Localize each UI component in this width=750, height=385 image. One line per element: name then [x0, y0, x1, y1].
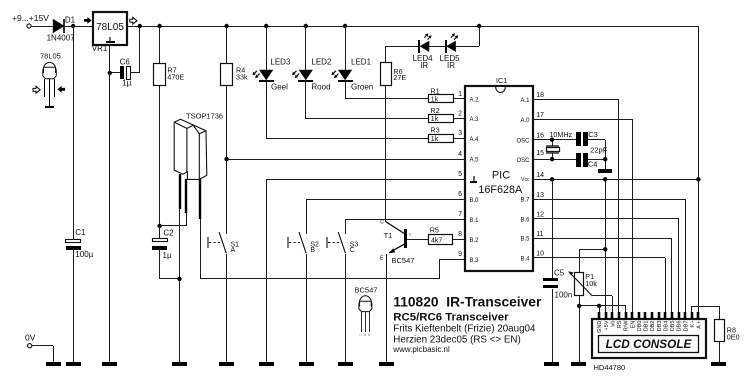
- svg-text:1k: 1k: [431, 136, 439, 143]
- LCD pin K -: [691, 312, 694, 319]
- svg-text:IR: IR: [447, 61, 455, 70]
- wire ground line to LCD GND pin: [599, 306, 601, 312]
- svg-text:C1: C1: [75, 228, 86, 237]
- ground T1: [379, 362, 394, 366]
- TSOP leg 1 (GND): [179, 174, 181, 209]
- wire R8 to ground: [719, 342, 721, 362]
- potentiometer P1 10k: [579, 249, 581, 273]
- svg-text:10MHz: 10MHz: [549, 130, 572, 139]
- wire TSOP OUT leg down: [200, 219, 202, 279]
- svg-text:IC1: IC1: [496, 76, 507, 85]
- resistor R5 4k7: [407, 239, 429, 241]
- LCD pin DB6: [678, 312, 681, 319]
- svg-text:PIC: PIC: [492, 170, 510, 182]
- ground S3: [338, 362, 353, 366]
- wire pin 13 to LCD DB7: [532, 199, 685, 201]
- switch S1 (A): [226, 159, 228, 234]
- svg-text:14: 14: [536, 172, 544, 179]
- svg-text:16: 16: [536, 133, 544, 140]
- svg-text:A.2: A.2: [470, 98, 480, 104]
- svg-text:www.picbasic.nl: www.picbasic.nl: [392, 345, 450, 354]
- svg-text:C2: C2: [163, 229, 174, 238]
- capacitor C2 1u: [159, 226, 161, 239]
- wire pin 7 to S3: [346, 219, 465, 221]
- wire pin 11 to LCD DB5: [532, 238, 672, 240]
- svg-text:1N4007: 1N4007: [47, 34, 76, 43]
- svg-text:110820 IR-Transceiver: 110820 IR-Transceiver: [393, 295, 542, 310]
- LCD pin Vo: [611, 312, 614, 319]
- svg-text:DB0: DB0: [637, 321, 643, 332]
- svg-text:TSOP1736: TSOP1736: [186, 112, 223, 121]
- svg-text:100µ: 100µ: [75, 250, 93, 259]
- wire pin 9 to TSOP OUT: [439, 259, 465, 261]
- svg-text:6: 6: [458, 191, 462, 198]
- wire pin 12 to LCD DB6: [532, 218, 679, 220]
- junction LED2 top: [304, 24, 308, 28]
- svg-text:Groen: Groen: [351, 82, 373, 91]
- wire pin 5 Vss to ground: [267, 179, 465, 181]
- junction R4 / S1 / pin A.5: [224, 157, 228, 161]
- resistor R4 33k: [226, 26, 228, 64]
- svg-text:1: 1: [458, 91, 462, 98]
- ground R8: [711, 362, 726, 366]
- capacitor C1 100u: [66, 240, 81, 243]
- capacitor C3 22pF: [576, 132, 581, 146]
- svg-text:15: 15: [536, 150, 544, 157]
- svg-text:5: 5: [458, 171, 462, 178]
- wire R1 to PIC: [454, 98, 465, 100]
- wire LED4 to LED5: [429, 46, 445, 48]
- wire +5V down to LCD A+: [698, 179, 700, 312]
- svg-text:9: 9: [458, 251, 462, 258]
- wire LED2 to R2: [305, 82, 307, 119]
- svg-text:LED1: LED1: [351, 58, 372, 67]
- svg-text:DB2: DB2: [650, 321, 656, 332]
- svg-text:C5: C5: [554, 268, 565, 277]
- ground Vss: [259, 362, 274, 366]
- svg-text:10: 10: [536, 251, 544, 258]
- wire D1 junction down to C1: [73, 26, 75, 239]
- wire 0V to ground: [32, 345, 53, 347]
- junction R7 / C2 / TSOP-Vs: [157, 224, 161, 228]
- LCD pin DB2: [651, 312, 654, 319]
- resistor R7 470E: [159, 26, 161, 64]
- svg-text:78L05: 78L05: [40, 52, 61, 61]
- ground C5: [544, 362, 559, 366]
- wire junction to TSOP middle leg: [160, 225, 186, 227]
- svg-text:C3: C3: [588, 130, 598, 139]
- svg-text:100n: 100n: [555, 291, 573, 300]
- svg-text:12: 12: [536, 212, 544, 219]
- junction C6 to VR1 ground line: [108, 71, 112, 75]
- wire LED5 to +5V rail: [455, 46, 479, 48]
- svg-text:7: 7: [458, 211, 462, 218]
- wire TSOP Vs leg to R7/C2 junction: [186, 213, 188, 226]
- wire R3 to PIC: [454, 138, 465, 140]
- svg-text:27E: 27E: [393, 73, 406, 82]
- wire pin 14 Vcc to +5V: [532, 179, 698, 181]
- svg-text:1k: 1k: [431, 97, 439, 104]
- svg-text:B.2: B.2: [470, 238, 480, 244]
- svg-text:1k: 1k: [431, 116, 439, 123]
- svg-text:Vcc: Vcc: [521, 177, 530, 183]
- svg-text:RC5/RC6 Transceiver: RC5/RC6 Transceiver: [393, 311, 509, 323]
- svg-text:LED3: LED3: [270, 58, 291, 67]
- wire TSOP GND leg to ground: [179, 209, 181, 362]
- svg-text:C: C: [350, 247, 355, 254]
- svg-text:33k: 33k: [236, 72, 248, 81]
- svg-text:DB3: DB3: [657, 321, 663, 332]
- LED LED1 (Groen): [345, 26, 347, 70]
- wire pin 10 to LCD DB4: [532, 257, 665, 259]
- svg-text:C4: C4: [588, 159, 598, 168]
- svg-text:C: C: [380, 220, 384, 226]
- svg-text:K -: K -: [690, 320, 696, 327]
- resistor R8 0E0: [715, 320, 725, 342]
- ground S2: [299, 362, 314, 366]
- wire T1 emitter to ground: [386, 254, 388, 362]
- wire R6 top to LED4: [385, 46, 387, 63]
- svg-text:B.3: B.3: [470, 258, 480, 264]
- svg-text:R1: R1: [430, 86, 439, 95]
- switch S3 (C): [345, 219, 347, 234]
- svg-text:R3: R3: [430, 126, 439, 135]
- svg-text:BC547: BC547: [392, 256, 415, 265]
- svg-text:B.5: B.5: [520, 237, 530, 243]
- svg-text:B.4: B.4: [520, 257, 530, 263]
- svg-text:BC547: BC547: [355, 286, 378, 295]
- resistor R1 1k: [429, 95, 454, 103]
- svg-text:17: 17: [536, 112, 544, 119]
- svg-text:D1: D1: [65, 16, 76, 25]
- svg-text:B.7: B.7: [520, 198, 530, 204]
- ground S1: [219, 362, 234, 366]
- wire ground line to LCD R/W pin: [625, 306, 627, 312]
- svg-text:13: 13: [536, 192, 544, 199]
- svg-text:R5: R5: [430, 226, 439, 235]
- svg-text:IR: IR: [420, 61, 428, 70]
- svg-text:3: 3: [458, 130, 462, 137]
- regulator VR1 78L05 box: [93, 12, 127, 45]
- svg-text:Rood: Rood: [311, 82, 330, 91]
- svg-text:R2: R2: [430, 106, 439, 115]
- svg-text:OSC: OSC: [516, 138, 530, 144]
- resistor R2 1k: [429, 115, 454, 123]
- LCD pin A +: [697, 312, 700, 319]
- svg-text:GND: GND: [597, 321, 603, 333]
- svg-text:R/W: R/W: [624, 320, 630, 332]
- svg-text:B.6: B.6: [520, 217, 530, 223]
- wire +5V rail down right side: [698, 26, 700, 179]
- wire pin 4 to R4/S1 junction: [227, 159, 465, 161]
- LCD pin R/W: [625, 312, 628, 319]
- svg-text:4: 4: [458, 151, 462, 158]
- svg-text:A.3: A.3: [470, 117, 480, 123]
- svg-text:C6: C6: [120, 57, 131, 66]
- wire LED3 to R3: [266, 82, 268, 138]
- svg-text:Frits Kieftenbelt (Frizie) 20a: Frits Kieftenbelt (Frizie) 20aug04: [393, 324, 536, 335]
- svg-text:LCD CONSOLE: LCD CONSOLE: [606, 337, 693, 351]
- LCD pin +5V: [605, 312, 608, 319]
- crystal X1 10MHz: [550, 138, 554, 142]
- LCD pin DB7: [684, 312, 687, 319]
- ground 0V: [46, 362, 61, 366]
- svg-text:B: B: [310, 247, 315, 254]
- wire R2 to PIC: [454, 118, 465, 120]
- LCD CONSOLE module HD44780: [592, 319, 706, 358]
- wire P1 bottom to ground: [579, 296, 581, 306]
- wire pin 6 to S2: [306, 199, 465, 201]
- svg-text:A: A: [231, 247, 236, 254]
- resistor R3 1k: [429, 135, 454, 143]
- svg-text:0V: 0V: [25, 332, 36, 342]
- wire D1 to VR1: [64, 26, 93, 28]
- svg-text:A.4: A.4: [470, 137, 480, 143]
- svg-text:16F628A: 16F628A: [478, 184, 523, 196]
- wire Vcc branch down to LCD +5V: [605, 179, 607, 312]
- ground C1: [66, 362, 81, 366]
- svg-text:11: 11: [536, 231, 543, 238]
- capacitor C4 22pF: [576, 153, 581, 167]
- wire pin 17 to LCD EN: [532, 119, 632, 121]
- LCD pin GND: [598, 312, 601, 319]
- wire VR1 output rail: [127, 26, 698, 28]
- junction R7 top: [157, 24, 161, 28]
- 78L05 TO-92 package drawing: [43, 62, 57, 78]
- svg-text:HD44780: HD44780: [594, 363, 626, 372]
- svg-text:2: 2: [458, 110, 462, 117]
- resistor R6 27E: [381, 63, 392, 86]
- svg-text:RS: RS: [617, 320, 623, 328]
- capacitor C5 100n: [552, 179, 554, 278]
- svg-text:10k: 10k: [585, 279, 597, 288]
- junction IR-LED branch: [477, 24, 481, 28]
- svg-text:DB6: DB6: [677, 321, 683, 332]
- LCD pin EN: [631, 312, 634, 319]
- LCD pin DB1: [644, 312, 647, 319]
- wire VR1 ground down: [109, 45, 111, 73]
- wire pin 18 to LCD RS: [532, 99, 619, 101]
- svg-text:4k7: 4k7: [431, 237, 442, 244]
- ground VR1: [102, 362, 117, 366]
- diode D1 1N4007: [53, 20, 63, 33]
- LED4 IR: [418, 40, 420, 53]
- svg-text:DB7: DB7: [683, 321, 689, 332]
- junction C2 to TSOP ground line: [177, 277, 181, 281]
- svg-text:A +: A +: [697, 321, 703, 329]
- svg-text:C: C: [359, 333, 362, 337]
- transistor T1 BC547: [404, 229, 407, 248]
- junction VR1 output: [138, 24, 142, 28]
- svg-text:B.1: B.1: [470, 218, 480, 224]
- LCD pin DB0: [638, 312, 641, 319]
- crystal ground bar: [598, 169, 612, 173]
- TSOP leg 2 (Vs): [185, 179, 187, 213]
- svg-text:Herzien 23dec05 (RS <> EN): Herzien 23dec05 (RS <> EN): [393, 334, 520, 345]
- svg-text:A.1: A.1: [520, 98, 530, 104]
- arrow out (open): [130, 17, 137, 24]
- wire P1 wiper to LCD Vo: [592, 295, 612, 297]
- LCD pin DB3: [658, 312, 661, 319]
- wire pin 15 OSC2: [532, 159, 576, 161]
- svg-text:DB4: DB4: [663, 321, 669, 332]
- junction after D1: [71, 24, 75, 28]
- LED5 IR: [445, 40, 447, 53]
- svg-text:Vo: Vo: [610, 321, 616, 327]
- LCD pin RS: [618, 312, 621, 319]
- svg-text:1µ: 1µ: [122, 78, 131, 87]
- svg-text:B.0: B.0: [470, 198, 480, 204]
- svg-text:Geel: Geel: [271, 82, 288, 91]
- svg-text:EN: EN: [630, 321, 636, 329]
- svg-text:DB5: DB5: [670, 321, 676, 332]
- junction R4 top: [224, 24, 228, 28]
- svg-text:0E0: 0E0: [727, 332, 740, 341]
- switch S2 (B): [306, 199, 308, 234]
- junction LED3 top: [264, 24, 268, 28]
- svg-text:OSC: OSC: [516, 158, 530, 164]
- pin 5 internal ground symbol: [473, 176, 475, 181]
- arrow in (filled): [84, 17, 92, 24]
- LCD pin DB4: [664, 312, 667, 319]
- wire R4 junction down to S1: [226, 159, 228, 234]
- svg-text:1µ: 1µ: [163, 251, 172, 260]
- LED LED3 (Geel): [266, 26, 268, 70]
- capacitor C6 1u: [139, 26, 141, 73]
- node +9...+15V input terminal: [27, 24, 31, 28]
- TSOP leg 3 (OUT): [199, 179, 201, 219]
- svg-text:+5V: +5V: [604, 320, 610, 330]
- wire input to D1: [31, 26, 54, 28]
- wire LED1 to R1: [345, 82, 347, 99]
- svg-text:LED2: LED2: [311, 58, 332, 67]
- PIC IC1 16F628A body: [465, 86, 533, 271]
- svg-text:T1: T1: [384, 231, 393, 240]
- svg-text:+9...+15V: +9...+15V: [12, 13, 49, 23]
- svg-text:VR1: VR1: [92, 44, 108, 53]
- wire pin 16 OSC1: [532, 139, 576, 141]
- svg-text:8: 8: [458, 231, 462, 238]
- junction LED1 top: [343, 24, 347, 28]
- svg-text:DB1: DB1: [644, 321, 650, 332]
- LCD pin DB5: [671, 312, 674, 319]
- svg-text:A.5: A.5: [470, 158, 480, 164]
- svg-text:78L05: 78L05: [96, 22, 124, 33]
- wire C3/C4 to crystal ground bar: [605, 140, 607, 169]
- svg-text:18: 18: [536, 92, 544, 99]
- svg-text:470E: 470E: [167, 72, 184, 81]
- ground TSOP: [172, 362, 187, 366]
- wire R6 bottom to T1 collector: [385, 86, 387, 222]
- wire LCD K- to R8: [691, 306, 693, 312]
- wire LCD ground line: [579, 305, 626, 307]
- ground P1/LCD: [571, 362, 586, 366]
- LED LED2 (Rood): [305, 26, 307, 70]
- wire R5 to pin 8: [453, 239, 465, 241]
- svg-text:A.0: A.0: [520, 118, 530, 124]
